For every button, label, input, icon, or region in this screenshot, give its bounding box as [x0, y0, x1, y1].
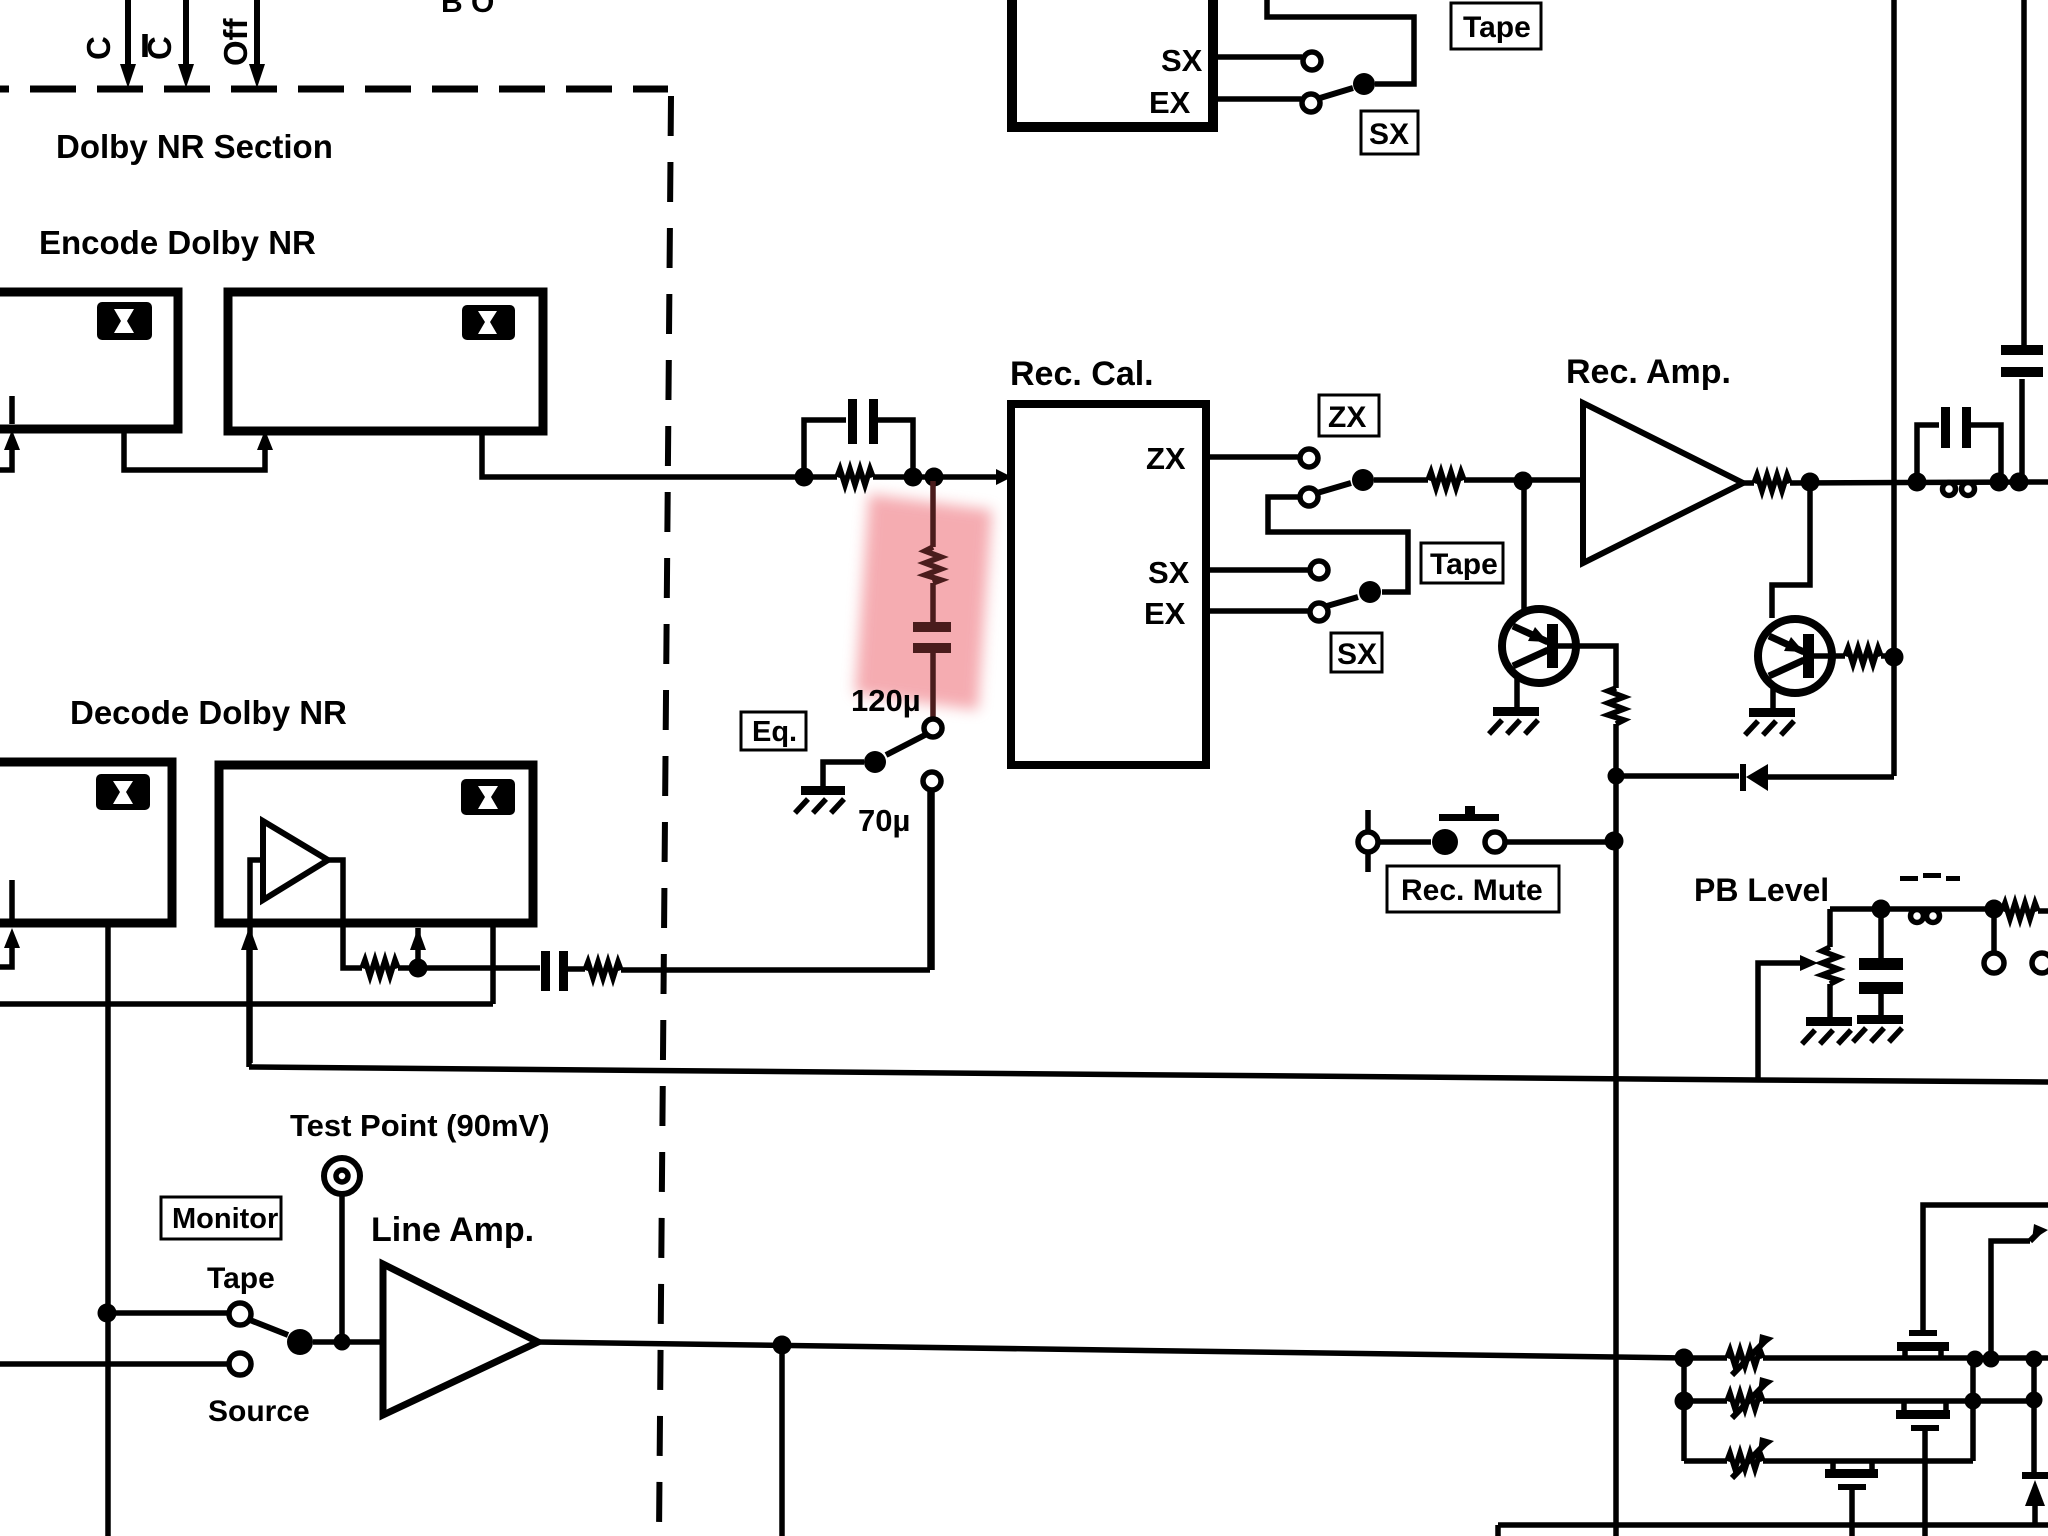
svg-text:Rec. Amp.: Rec. Amp.: [1566, 353, 1731, 391]
svg-text:SX: SX: [1369, 118, 1409, 151]
svg-text:Dolby NR Section: Dolby NR Section: [56, 128, 333, 165]
svg-text:120µ: 120µ: [851, 683, 921, 718]
svg-text:Tape: Tape: [207, 1262, 275, 1295]
svg-text:EX: EX: [1149, 85, 1191, 120]
svg-text:EX: EX: [1144, 596, 1186, 631]
svg-text:Line Amp.: Line Amp.: [371, 1211, 534, 1249]
svg-text:ZX: ZX: [1328, 401, 1366, 434]
svg-text:B O: B O: [441, 0, 494, 19]
svg-text:Rec. Mute: Rec. Mute: [1401, 874, 1543, 907]
svg-text:SX: SX: [1148, 555, 1190, 590]
svg-text:Encode Dolby NR: Encode Dolby NR: [39, 224, 316, 261]
svg-text:SX: SX: [1337, 638, 1377, 671]
svg-text:SX: SX: [1161, 43, 1203, 78]
svg-text:70µ: 70µ: [858, 803, 910, 838]
svg-text:PB Level: PB Level: [1694, 872, 1829, 908]
svg-text:Monitor: Monitor: [172, 1203, 278, 1235]
svg-text:C: C: [80, 36, 117, 60]
svg-text:Off: Off: [217, 17, 254, 66]
svg-text:Eq.: Eq.: [752, 716, 797, 748]
svg-text:ZX: ZX: [1146, 441, 1186, 476]
svg-text:Tape: Tape: [1430, 548, 1498, 581]
svg-text:Source: Source: [208, 1395, 310, 1428]
svg-text:Tape: Tape: [1463, 11, 1531, 44]
svg-text:Rec. Cal.: Rec. Cal.: [1010, 355, 1154, 393]
svg-text:Test Point (90mV): Test Point (90mV): [290, 1108, 550, 1143]
svg-text:Decode Dolby NR: Decode Dolby NR: [70, 694, 347, 731]
